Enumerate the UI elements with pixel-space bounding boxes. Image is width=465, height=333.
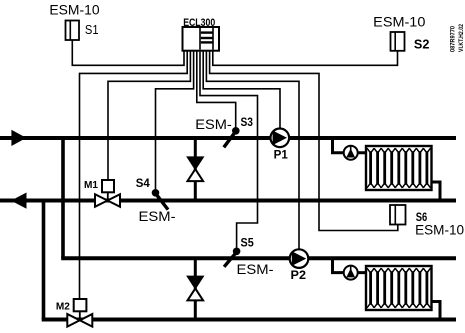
wire - radiator 1 outlet pipe [432, 182, 441, 201]
svg-text:P2: P2 [291, 270, 307, 282]
ESM-10 label for S1 [49, 3, 99, 18]
wire - bypass pipe circuit 1 [194, 138, 197, 201]
svg-text:S1: S1 [85, 22, 99, 37]
S6 label [416, 212, 428, 224]
wire - sensor S2 cable [213, 50, 398, 66]
valve - bypass check valve circuit 2 [188, 276, 204, 300]
sensor S6 (ESM-10) [390, 205, 406, 225]
wire - return main pipe 2 [42, 318, 456, 322]
wire - radiator 2 outlet pipe [432, 302, 441, 320]
wire - radiator 1 branch pipe [333, 138, 367, 153]
svg-text:S5: S5 [241, 238, 255, 250]
wire - bypass pipe circuit 2 [194, 258, 197, 319]
radiator circuit 2 [366, 266, 432, 310]
ESM-10 label for S2 [373, 14, 425, 29]
node - return flow arrow [11, 193, 27, 209]
wire - return main pipe 1 [0, 199, 456, 203]
svg-text:M1: M1 [84, 179, 98, 191]
wire - supply main pipe 2 [61, 256, 456, 260]
P1 label [274, 149, 289, 161]
doc code text (vertical) [450, 24, 465, 52]
pump P2 [290, 249, 309, 268]
wire - sensor S6 cable [210, 50, 398, 231]
sensor S3 (flow sensor circuit 1) [224, 127, 240, 147]
wire - supply main pipe 1 (flow) [0, 136, 456, 140]
wire - vertical pipe return1 to return2 [42, 199, 46, 320]
svg-text:087R9770: 087R9770 [450, 26, 457, 52]
svg-text:ESM-: ESM- [139, 209, 176, 224]
svg-text:M2: M2 [56, 300, 70, 312]
S3 label [241, 117, 254, 129]
sensor S5 (flow sensor circuit 2) [224, 248, 240, 267]
radiator circuit 1 [366, 146, 432, 190]
valve - radiator thermostat circuit 2 [344, 266, 358, 280]
wire - radiator 2 branch pipe [333, 258, 367, 272]
valve M1 (motorized 3-way) [95, 180, 120, 207]
node - supply flow arrow [11, 130, 26, 146]
S2 label [414, 38, 430, 52]
svg-text:ESM-10: ESM-10 [373, 14, 425, 29]
valve M2 (motorized 3-way) [67, 299, 92, 327]
wire - valve M1 cable [108, 50, 190, 181]
ECL300 label [183, 17, 215, 29]
svg-text:ESM-10: ESM-10 [415, 223, 464, 238]
sensor S1 (ESM-10 outdoor) [66, 21, 80, 41]
M1 label [84, 179, 98, 191]
wire - valve M2 cable [80, 50, 188, 299]
svg-text:ESM-: ESM- [195, 117, 232, 132]
svg-text:P1: P1 [274, 149, 289, 161]
S1 label [85, 22, 99, 37]
ESM- label for S4 [139, 209, 176, 224]
wire - sensor S4 cable [156, 50, 194, 190]
valve - radiator thermostat circuit 1 [344, 146, 358, 160]
svg-text:ECL300: ECL300 [183, 17, 215, 29]
wire - sensor S1 cable [72, 40, 184, 65]
wire - pump P1 cable [203, 50, 280, 130]
M2 label [56, 300, 70, 312]
valve - bypass check valve circuit 1 [188, 157, 204, 181]
wire - vertical pipe supply1 to supply2 [61, 136, 65, 258]
ESM-10 label for S6 [415, 223, 464, 238]
svg-text:S3: S3 [241, 117, 254, 129]
svg-text:S4: S4 [136, 178, 151, 190]
wire - pump P2 cable [206, 50, 299, 250]
ESM- label for S3 [195, 117, 232, 132]
svg-text:S2: S2 [414, 38, 430, 52]
sensor S2 (ESM-10) [391, 32, 405, 51]
pump P1 [271, 129, 290, 148]
S4 label [136, 178, 151, 190]
svg-text:VI.KT.H2.02: VI.KT.H2.02 [458, 24, 465, 52]
ESM- label for S5 [237, 262, 274, 277]
wire - sensor S5 cable [200, 50, 258, 248]
svg-text:ESM-: ESM- [237, 262, 274, 277]
P2 label [291, 270, 307, 282]
S5 label [241, 238, 255, 250]
sensor S4 (return sensor) [152, 189, 168, 210]
op-amp U1 controller ECL300 box [183, 27, 220, 51]
svg-text:ESM-10: ESM-10 [49, 3, 99, 18]
wire - sensor S3 cable [197, 50, 236, 129]
